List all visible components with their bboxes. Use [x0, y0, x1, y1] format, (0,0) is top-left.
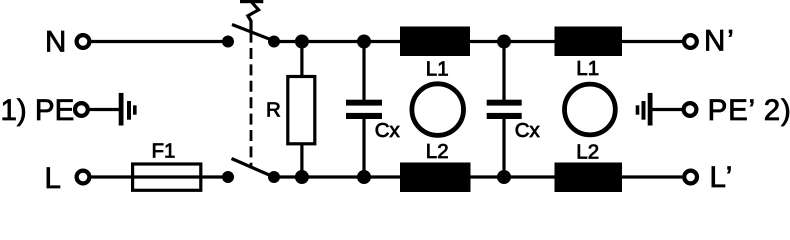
wire L line left segment: [91, 175, 228, 178]
node junction dot N-Cx1: [357, 35, 371, 49]
svg-text:L: L: [45, 162, 61, 195]
node junction dot N-Cx2: [497, 35, 511, 49]
switch pole L: blade: [232, 159, 276, 178]
terminal L: [77, 171, 90, 184]
capacitor Cx2 bottom plate: [487, 113, 522, 119]
svg-text:F1: F1: [152, 140, 176, 163]
terminal L': [684, 171, 697, 184]
svg-text:L’: L’: [710, 161, 734, 194]
resistor R body: [288, 77, 315, 144]
wire resistor bottom: [300, 142, 303, 177]
svg-text:PE’ 2): PE’ 2): [708, 94, 790, 127]
capacitor Cx1 top plate: [346, 100, 382, 106]
svg-text:1) PE: 1) PE: [1, 94, 75, 127]
ground symbol left: small bar: [133, 105, 137, 114]
wire PE left stub: [90, 108, 119, 111]
svg-text:Cx: Cx: [515, 119, 541, 142]
capacitor Cx2 top plate: [487, 100, 522, 106]
terminal N': [684, 35, 697, 48]
choke 1 core circle: [412, 84, 464, 136]
choke 2 core circle: [565, 84, 616, 135]
ground symbol left: tall bar: [119, 93, 124, 126]
terminal PE': [684, 103, 697, 116]
switch pole N: right contact dot: [268, 36, 280, 48]
choke 1 winding L2 (L line): [400, 163, 471, 193]
svg-text:L2: L2: [426, 140, 449, 163]
wire L line right segment: [274, 175, 682, 178]
switch actuator T-bar: [240, 0, 263, 3]
switch pole N: left contact dot: [222, 36, 234, 48]
wire capacitor Cx2 top: [502, 42, 505, 101]
ground symbol left: middle bar: [127, 101, 131, 120]
fuse F1 body: [133, 164, 201, 190]
switch pole L: left contact dot: [222, 171, 234, 183]
switch coupling dashed line: [250, 32, 253, 169]
choke 2 winding L1 (N line): [555, 27, 623, 57]
capacitor Cx1 bottom plate: [346, 113, 382, 119]
wire through fuse: [132, 175, 201, 178]
node junction dot L-R: [295, 170, 309, 184]
svg-text:L1: L1: [426, 58, 449, 81]
wire capacitor Cx2 bottom: [502, 119, 505, 177]
wire resistor top: [300, 42, 303, 79]
choke 1 winding L1 (N line): [400, 27, 470, 57]
terminal PE: [75, 103, 88, 116]
wire capacitor Cx1 top: [362, 42, 365, 101]
ground symbol right: small bar: [636, 105, 640, 114]
node junction dot L-Cx1: [357, 170, 371, 184]
svg-text:N’: N’: [704, 25, 736, 58]
terminal N: [77, 35, 90, 48]
svg-text:Cx: Cx: [375, 119, 401, 142]
switch pole N: blade: [232, 25, 277, 43]
wire capacitor Cx1 bottom: [362, 119, 365, 177]
ground symbol right: tall bar: [648, 93, 653, 126]
wire N line left segment: [91, 40, 228, 43]
choke 2 winding L2 (L line): [555, 163, 623, 193]
wire N line right segment: [274, 40, 682, 43]
node junction dot L-Cx2: [497, 170, 511, 184]
ground symbol right: middle bar: [642, 101, 646, 120]
switch pole L: right contact dot: [268, 171, 280, 183]
svg-text:L2: L2: [576, 140, 599, 163]
wire PE right stub: [653, 108, 683, 111]
switch actuator zigzag: [248, 3, 259, 32]
svg-text:L1: L1: [576, 57, 599, 80]
node junction dot N-R: [295, 35, 309, 49]
svg-text:N: N: [45, 25, 66, 58]
svg-text:R: R: [266, 98, 281, 121]
